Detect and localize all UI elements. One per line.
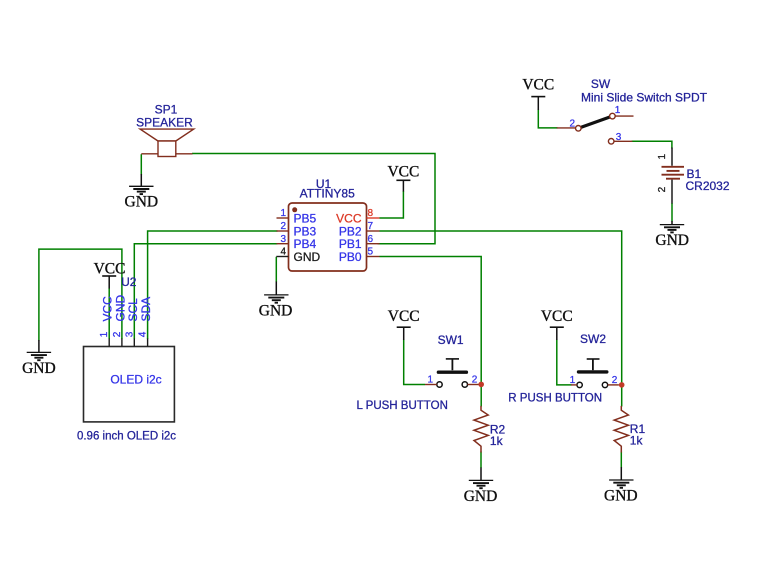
wire U1 pin2 PB3 to OLED SDA (148, 231, 278, 339)
svg-text:ATTINY85: ATTINY85 (300, 187, 355, 201)
pin 1 contact (610, 113, 616, 119)
ground GND flag below speaker (125, 174, 159, 211)
pin 2 PB3 (277, 230, 289, 232)
svg-text:4: 4 (280, 247, 286, 258)
svg-text:1k: 1k (630, 434, 644, 448)
plate long (662, 174, 685, 176)
svg-text:4: 4 (138, 331, 149, 337)
pin 1 SP1 left stub (141, 153, 158, 155)
pin 3 PB4 (277, 243, 289, 245)
wire U1 pin4 to GND (275, 257, 277, 282)
switch SW Mini Slide Switch SPDT (557, 77, 708, 144)
wire U1 pin3 PB4 to OLED SCL (134, 244, 277, 339)
module U2 OLED i2c (77, 275, 176, 442)
ground GND flag below R2 (464, 468, 498, 505)
pin 2 contact (576, 126, 582, 132)
plate short bottom (666, 178, 680, 180)
wire U1 pin7 PB2 to SW2 junction (380, 231, 622, 385)
svg-text:VCC: VCC (336, 211, 362, 225)
svg-text:VCC: VCC (541, 308, 573, 325)
resistor R1 (614, 406, 645, 453)
pin1 mark dot (292, 207, 297, 212)
wire SPK- down to GND (140, 154, 142, 175)
pin 3 SCL (133, 339, 135, 347)
svg-text:L PUSH BUTTON: L PUSH BUTTON (357, 400, 448, 412)
svg-text:1: 1 (99, 331, 110, 337)
pin 7 PB2 (367, 230, 380, 232)
wire SW2 junction to R1 (621, 385, 623, 407)
ground GND flag at U1 pin4 (259, 282, 293, 320)
resistor R2 (474, 406, 506, 453)
lever (581, 117, 609, 127)
svg-text:GND: GND (22, 360, 56, 377)
actuator (587, 358, 600, 360)
svg-text:2: 2 (612, 375, 618, 386)
svg-text:VCC: VCC (94, 260, 126, 277)
wire battery pin2 to GND (671, 203, 673, 222)
wire R2 to GND (480, 452, 482, 469)
svg-text:PB5: PB5 (294, 211, 317, 225)
svg-text:2: 2 (472, 374, 478, 385)
net VCC flag at U1 pin8 (387, 163, 419, 191)
svg-text:1: 1 (615, 105, 621, 116)
svg-text:6: 6 (368, 234, 374, 245)
wire SW1 VCC to pin1 (404, 340, 425, 385)
ground GND flag below R1 (604, 467, 638, 505)
wire OLED GND pin to left GND flag (39, 249, 122, 340)
wire U1 pin8 to VCC flag (380, 191, 404, 218)
wire SW1 junction to R2 (480, 384, 482, 406)
pin 2 SP1 right stub (176, 153, 193, 155)
plate long top (662, 166, 685, 168)
ground GND flag below battery B1 (655, 221, 689, 249)
pin 2 GND (121, 339, 123, 347)
wire SW2 VCC to pin1 (557, 340, 572, 385)
pin 2 contact (602, 382, 607, 387)
svg-text:2: 2 (112, 331, 123, 337)
net VCC flag at SW (522, 77, 554, 110)
svg-text:8: 8 (368, 208, 374, 219)
svg-text:SW2: SW2 (580, 332, 606, 346)
wire R1 to GND (620, 452, 622, 468)
svg-text:VCC: VCC (388, 308, 420, 325)
svg-text:3: 3 (616, 132, 622, 143)
IC U1 ATTINY85 (276, 177, 379, 271)
svg-text:5: 5 (368, 247, 374, 258)
junction SW1 pin2 node (478, 382, 484, 388)
wire VCC flag to SW pin2 (538, 110, 557, 128)
pin 8 VCC (367, 217, 380, 219)
pin 1 contact (437, 382, 442, 387)
net VCC flag at SW1 (388, 308, 420, 340)
pin 6 PB1 (367, 243, 380, 245)
svg-text:2: 2 (657, 186, 668, 192)
svg-text:OLED i2c: OLED i2c (110, 373, 161, 387)
svg-text:PB0: PB0 (339, 250, 362, 264)
svg-text:SW: SW (591, 77, 611, 91)
pin 1 contact (577, 382, 582, 387)
pin 5 PB0 (367, 256, 380, 258)
svg-text:VCC: VCC (387, 163, 419, 180)
pin 1 stub (671, 148, 673, 166)
wire SPK+ to U1 PB1 (net SPK) (192, 154, 435, 244)
svg-text:1k: 1k (490, 434, 504, 448)
svg-text:1: 1 (280, 208, 286, 219)
svg-text:GND: GND (125, 194, 159, 211)
stub VCC to pin2 (557, 127, 576, 129)
ground GND flag at far left (OLED GND) (22, 340, 56, 377)
pin 2 contact (462, 382, 467, 387)
svg-text:GND: GND (464, 488, 498, 505)
svg-text:1: 1 (570, 375, 576, 386)
pin 1 VCC (108, 339, 110, 347)
svg-text:GND: GND (604, 488, 638, 505)
svg-text:CR2032: CR2032 (686, 179, 730, 193)
net VCC flag at SW2 (541, 308, 573, 340)
plate short (667, 170, 680, 172)
svg-text:SW1: SW1 (438, 333, 464, 347)
svg-text:SDA: SDA (139, 297, 153, 322)
svg-text:VCC: VCC (522, 77, 554, 94)
svg-text:GND: GND (655, 232, 689, 249)
battery B1 CR2032 (657, 148, 730, 204)
pin 4 GND (276, 256, 288, 258)
svg-text:GND: GND (294, 250, 321, 264)
wire U1 pin5 PB0 to SW1 junction (380, 257, 482, 385)
svg-text:GND: GND (259, 302, 293, 319)
svg-text:1: 1 (657, 153, 668, 159)
pin 2 stub (671, 180, 673, 204)
svg-text:SCL: SCL (126, 298, 140, 322)
svg-text:Mini Slide Switch SPDT: Mini Slide Switch SPDT (581, 91, 708, 105)
svg-text:7: 7 (368, 221, 374, 232)
svg-text:1: 1 (427, 374, 433, 385)
svg-text:3: 3 (280, 234, 286, 245)
pin 4 SDA (147, 339, 149, 347)
wire SW pin3 to battery pin1 (632, 141, 672, 148)
svg-text:0.96 inch OLED i2c: 0.96 inch OLED i2c (77, 430, 176, 442)
svg-text:3: 3 (124, 331, 135, 337)
pin 3 contact (608, 139, 614, 145)
pin 1 PB5 (277, 217, 289, 219)
pushbutton SW2 (508, 332, 619, 404)
svg-text:2: 2 (280, 221, 286, 232)
svg-text:SPEAKER: SPEAKER (136, 116, 193, 130)
svg-text:R PUSH BUTTON: R PUSH BUTTON (508, 392, 602, 404)
junction SW2 pin2 node (619, 382, 625, 388)
wire OLED VCC pin to VCC flag (108, 288, 110, 339)
svg-text:SP1: SP1 (155, 103, 178, 117)
actuator (446, 358, 459, 360)
net VCC flag at U2 OLED (94, 260, 126, 288)
pushbutton SW1 (357, 333, 479, 412)
speaker SP1 (136, 103, 194, 157)
